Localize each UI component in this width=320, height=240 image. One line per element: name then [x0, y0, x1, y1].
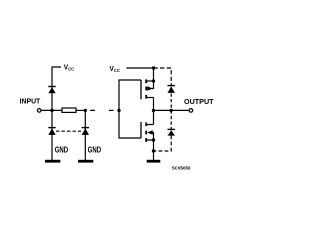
- wire: left column below input line to ground: [51, 110, 53, 160]
- wire (dashed): output node to lower clamp diode: [170, 110, 172, 129]
- wire: resistor to node A: [76, 109, 85, 111]
- node: junction input/D1/D2: [50, 109, 53, 112]
- ground (left, under D2): [45, 160, 60, 163]
- node A: junction resistor/D3: [84, 109, 87, 112]
- svg-text:GND: GND: [88, 145, 101, 155]
- wire: PMOS drain to output line: [153, 98, 155, 111]
- wire: node A down to lower diode / ground: [84, 110, 86, 160]
- node: output terminal circle: [189, 109, 193, 113]
- wire: NMOS drain to output line: [153, 110, 155, 124]
- wire (dashed): upper clamp diode to output node: [170, 94, 172, 111]
- ground (middle, under D3): [78, 160, 93, 163]
- node: output junction (drain): [152, 109, 155, 112]
- wire: right VCC rail: [127, 67, 154, 69]
- svg-text:GND: GND: [55, 145, 68, 155]
- diode D1 input to VCC: [48, 87, 55, 94]
- wire: output line: [154, 109, 189, 111]
- wire (dashed): VCC rail to upper clamp diode: [154, 68, 172, 85]
- node: input terminal circle: [37, 109, 41, 113]
- svg-text:INPUT: INPUT: [20, 96, 41, 105]
- wire: gate bracket: [119, 80, 141, 138]
- node: output/diode junction: [170, 109, 173, 112]
- wire: left VCC rail corner: [52, 67, 61, 110]
- wire (dashed): link between lower protection diodes: [56, 130, 81, 132]
- node: gate junction: [117, 109, 120, 112]
- node: source/diode-return junction: [152, 149, 155, 152]
- transistor Q2 n-channel MOSFET: [141, 122, 154, 142]
- ground (right, NMOS source): [147, 160, 161, 163]
- wire: NMOS source down to ground: [153, 140, 155, 160]
- node: PMOS source junction: [152, 79, 155, 82]
- wire (dashed): node A to gate node: [90, 109, 114, 111]
- svg-text:VCC: VCC: [64, 64, 75, 71]
- diode D3 node A to GND: [82, 128, 89, 135]
- wire: VCC rail down to PMOS source: [153, 68, 155, 81]
- svg-text:OUTPUT: OUTPUT: [184, 97, 214, 106]
- transistor Q1 p-channel MOSFET: [141, 79, 154, 99]
- diode D4 output to VCC (dashed net): [168, 86, 175, 93]
- resistor R (input series): [62, 108, 76, 112]
- wire (dashed): lower clamp diode to source node: [154, 136, 172, 152]
- svg-text:VCC: VCC: [110, 66, 121, 73]
- diode D5 output to GND (dashed net): [168, 129, 175, 135]
- node: VCC rail junction: [152, 66, 155, 69]
- diode D2 input line to GND (left): [48, 128, 55, 135]
- svg-text:SC05050: SC05050: [172, 166, 191, 171]
- wire: input terminal to resistor: [41, 109, 62, 111]
- node: NMOS source junction: [152, 138, 155, 141]
